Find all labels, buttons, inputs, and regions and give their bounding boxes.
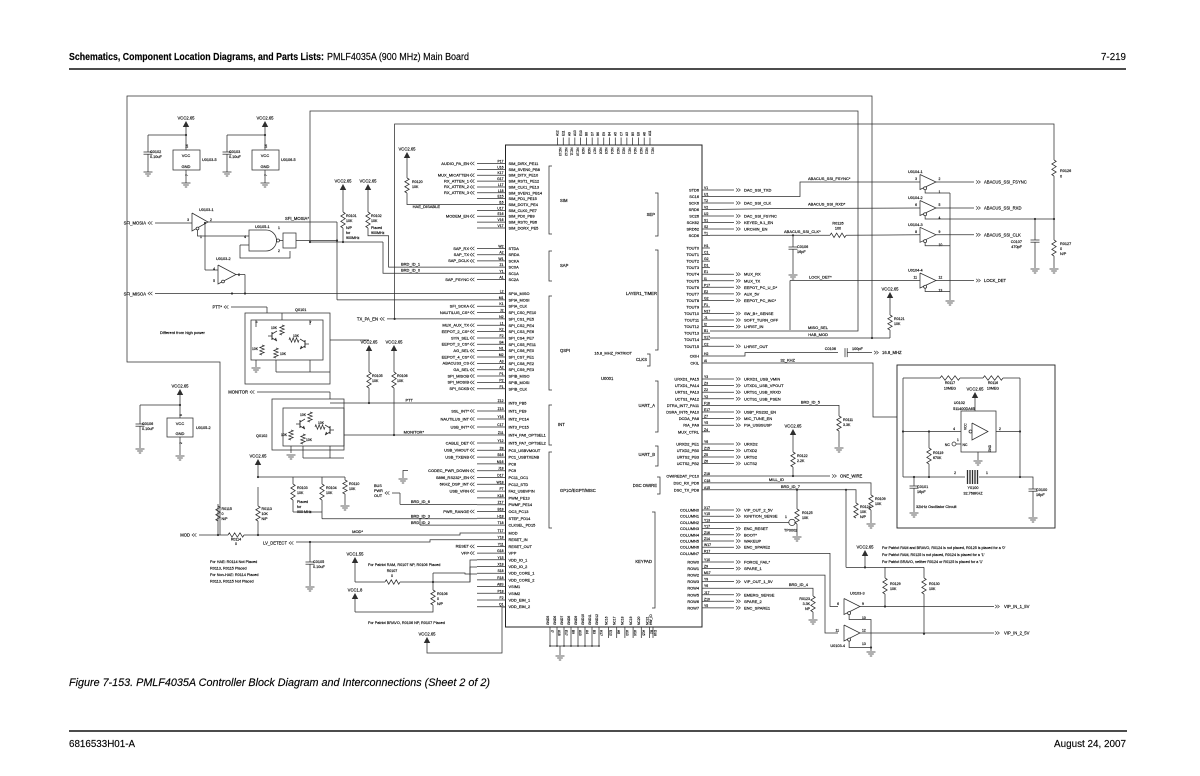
svg-text:Z18: Z18 <box>704 472 710 476</box>
svg-text:3.3K: 3.3K <box>803 602 811 606</box>
svg-text:For Patriot BRAVO, R0106 NP, R: For Patriot BRAVO, R0106 NP, R0107 Place… <box>368 621 445 625</box>
svg-text:A2: A2 <box>499 251 503 255</box>
svg-text:MOD: MOD <box>509 531 518 536</box>
svg-text:RX_ATTEN_3: RX_ATTEN_3 <box>444 190 470 195</box>
svg-text:ROW1: ROW1 <box>687 566 699 571</box>
svg-text:SPIA_MOSI: SPIA_MOSI <box>509 297 530 302</box>
svg-text:C0107: C0107 <box>1011 240 1022 244</box>
svg-text:R0122: R0122 <box>797 454 808 458</box>
svg-text:VDD_EIM_2: VDD_EIM_2 <box>509 604 531 609</box>
svg-text:VCC2.65: VCC2.65 <box>335 179 353 184</box>
svg-text:MUX_MICATTEN: MUX_MICATTEN <box>438 173 469 178</box>
svg-text:6816533H01-A: 6816533H01-A <box>69 738 135 750</box>
svg-text:Z1: Z1 <box>500 263 504 267</box>
svg-text:TOUT12: TOUT12 <box>684 324 699 329</box>
svg-text:VCC2.65: VCC2.65 <box>785 424 803 429</box>
svg-text:H17: H17 <box>599 630 603 636</box>
svg-text:U0105-1: U0105-1 <box>255 225 270 229</box>
svg-text:U17: U17 <box>497 206 503 210</box>
svg-text:BRD_ID_5: BRD_ID_5 <box>801 399 821 404</box>
svg-text:URTS1_PA13: URTS1_PA13 <box>675 390 699 395</box>
svg-text:RESET: RESET <box>456 544 470 549</box>
svg-text:PMLF4035A (900 MHz) Main Board: PMLF4035A (900 MHz) Main Board <box>327 52 469 63</box>
svg-text:D17: D17 <box>497 474 503 478</box>
svg-text:2: 2 <box>278 249 280 253</box>
svg-text:B18: B18 <box>497 508 503 512</box>
svg-text:August 24, 2007: August 24, 2007 <box>1054 738 1126 750</box>
svg-text:N2: N2 <box>499 315 503 319</box>
svg-text:MUX_AUX_TX: MUX_AUX_TX <box>442 323 469 328</box>
svg-text:SPI_MISOB: SPI_MISOB <box>447 373 469 378</box>
svg-text:C0101: C0101 <box>917 485 928 489</box>
svg-text:SPI_CS8_PE2: SPI_CS8_PE2 <box>509 361 535 366</box>
svg-text:8: 8 <box>915 230 917 234</box>
svg-text:W1: W1 <box>498 257 503 261</box>
svg-text:10K: 10K <box>300 413 307 417</box>
svg-text:Y10: Y10 <box>704 558 710 562</box>
svg-text:VSIM2: VSIM2 <box>509 591 521 596</box>
svg-text:USB_VMOUT: USB_VMOUT <box>444 448 469 453</box>
svg-text:RIA_PA9: RIA_PA9 <box>683 423 699 428</box>
svg-text:S896_RS232*_EN: S896_RS232*_EN <box>436 475 469 480</box>
svg-text:OWIREDAT_PC10: OWIREDAT_PC10 <box>666 474 699 479</box>
svg-text:NC12: NC12 <box>564 148 568 157</box>
svg-text:10K: 10K <box>293 334 300 338</box>
svg-text:N/P: N/P <box>262 517 269 521</box>
svg-text:LOCK_DET: LOCK_DET <box>984 278 1007 283</box>
svg-text:NC9: NC9 <box>581 148 585 155</box>
svg-text:DSC OWIRE: DSC OWIRE <box>633 483 657 488</box>
svg-text:Q0101: Q0101 <box>295 308 306 312</box>
svg-text:ABACUS_SSI_RXD: ABACUS_SSI_RXD <box>984 206 1021 211</box>
svg-text:GND5: GND5 <box>546 616 550 625</box>
svg-text:ROW3: ROW3 <box>687 579 699 584</box>
svg-text:SIM_CLK1_PE13: SIM_CLK1_PE13 <box>509 184 540 189</box>
svg-text:P2: P2 <box>499 378 503 382</box>
svg-text:Y3: Y3 <box>704 375 708 379</box>
svg-text:INT3_PC15: INT3_PC15 <box>509 425 529 430</box>
svg-text:M16: M16 <box>497 460 504 464</box>
svg-text:32_KHZ: 32_KHZ <box>780 358 795 363</box>
svg-text:GND11: GND11 <box>588 614 592 625</box>
svg-text:UCTS2: UCTS2 <box>744 461 758 466</box>
svg-text:670K: 670K <box>933 456 942 460</box>
svg-text:UART_A: UART_A <box>639 403 656 408</box>
svg-text:T1: T1 <box>704 232 708 236</box>
svg-text:B6: B6 <box>596 132 600 136</box>
svg-text:SEP: SEP <box>647 212 656 217</box>
svg-text:RX_ATTEN_1: RX_ATTEN_1 <box>444 178 470 183</box>
svg-text:2: 2 <box>954 471 956 475</box>
svg-text:A13: A13 <box>625 630 629 636</box>
svg-text:VCC2.65: VCC2.65 <box>419 632 437 637</box>
svg-text:TOUT3: TOUT3 <box>686 265 699 270</box>
svg-text:VCC2.65: VCC2.65 <box>361 340 379 345</box>
svg-text:P17: P17 <box>704 283 710 287</box>
svg-text:10K: 10K <box>280 352 287 356</box>
svg-text:NC5: NC5 <box>604 148 608 155</box>
svg-text:Z4: Z4 <box>704 428 708 432</box>
svg-text:B4: B4 <box>499 340 503 344</box>
svg-text:SIM_PD1_PE15: SIM_PD1_PE15 <box>509 196 537 201</box>
svg-text:P17: P17 <box>497 160 503 164</box>
svg-text:AI: AI <box>704 359 707 363</box>
svg-text:L2: L2 <box>500 290 504 294</box>
svg-text:ENC_SPARE2: ENC_SPARE2 <box>744 545 771 550</box>
svg-text:ROW2: ROW2 <box>687 573 699 578</box>
svg-text:MUX_RX: MUX_RX <box>744 272 761 277</box>
svg-text:PIA_USBSUSP: PIA_USBSUSP <box>744 423 772 428</box>
svg-text:10K: 10K <box>894 322 901 326</box>
svg-text:INT1_PE9: INT1_PE9 <box>509 409 527 414</box>
svg-text:Z5: Z5 <box>704 453 708 457</box>
svg-text:ABACUS_SSI_CLK*: ABACUS_SSI_CLK* <box>784 229 821 234</box>
svg-text:MODEM_EN: MODEM_EN <box>446 214 469 219</box>
svg-text:ROW7: ROW7 <box>687 605 699 610</box>
svg-text:AUX_5V: AUX_5V <box>744 291 760 296</box>
svg-text:EMERG_SENSE: EMERG_SENSE <box>744 592 775 597</box>
svg-text:10K: 10K <box>860 510 867 514</box>
svg-text:VCC2.65: VCC2.65 <box>386 340 404 345</box>
svg-text:For HAE: R0114 Not Placed: For HAE: R0114 Not Placed <box>210 560 257 564</box>
svg-text:W18: W18 <box>497 480 504 484</box>
svg-text:GND6: GND6 <box>553 616 557 625</box>
svg-text:TOUT13: TOUT13 <box>684 331 699 336</box>
svg-text:TOUT2: TOUT2 <box>686 259 699 264</box>
svg-text:VCC2.65: VCC2.65 <box>857 545 875 550</box>
svg-text:1: 1 <box>785 515 787 519</box>
svg-text:C0106: C0106 <box>797 245 808 249</box>
svg-text:INT4_PA6_OPTSEL1: INT4_PA6_OPTSEL1 <box>509 433 546 438</box>
svg-text:A13: A13 <box>573 130 577 136</box>
svg-text:F2: F2 <box>500 334 504 338</box>
svg-text:NC6: NC6 <box>598 148 602 155</box>
svg-text:SPIA_CLK: SPIA_CLK <box>509 304 528 309</box>
svg-text:URTS2: URTS2 <box>744 455 758 460</box>
svg-text:U0104-1: U0104-1 <box>908 170 923 174</box>
svg-text:A3: A3 <box>625 132 629 136</box>
svg-text:SPI_CS2_PE4: SPI_CS2_PE4 <box>509 323 535 328</box>
svg-text:MONITOR*: MONITOR* <box>404 430 425 435</box>
svg-text:MONITOR: MONITOR <box>228 390 248 395</box>
svg-text:SC2A: SC2A <box>509 277 520 282</box>
svg-text:10K: 10K <box>412 185 419 189</box>
svg-text:M1: M1 <box>499 296 504 300</box>
svg-text:A10: A10 <box>578 630 582 636</box>
svg-text:Q0102: Q0102 <box>256 434 267 438</box>
svg-text:J17: J17 <box>704 591 710 595</box>
svg-text:10K: 10K <box>349 487 356 491</box>
svg-text:GND8: GND8 <box>567 616 571 625</box>
svg-text:R0126: R0126 <box>1060 169 1071 173</box>
svg-text:R0113, R0115 Placed: R0113, R0115 Placed <box>210 567 247 571</box>
svg-text:9: 9 <box>939 230 941 234</box>
svg-text:Z14: Z14 <box>704 537 710 541</box>
svg-text:U0106-5: U0106-5 <box>281 158 296 162</box>
svg-text:Figure 7-153. PMLF4035A Contro: Figure 7-153. PMLF4035A Controller Block… <box>69 677 490 689</box>
svg-text:M17: M17 <box>704 571 711 575</box>
svg-text:12: 12 <box>939 276 943 280</box>
svg-text:14: 14 <box>264 144 268 148</box>
svg-text:F1: F1 <box>704 303 708 307</box>
svg-text:BRD_ID_0: BRD_ID_0 <box>401 268 421 273</box>
svg-text:R0130: R0130 <box>929 582 940 586</box>
svg-text:RX_ATTEN_2: RX_ATTEN_2 <box>444 184 470 189</box>
svg-text:INT: INT <box>558 422 565 427</box>
svg-text:SPI_CS6_PE0: SPI_CS6_PE0 <box>509 348 535 353</box>
svg-text:VCC2.65: VCC2.65 <box>967 387 985 392</box>
svg-text:BRD_ID_1: BRD_ID_1 <box>401 261 421 266</box>
svg-text:U0103-5: U0103-5 <box>202 158 217 162</box>
svg-text:VCC1.8: VCC1.8 <box>348 588 363 593</box>
svg-text:V17: V17 <box>497 224 503 228</box>
svg-text:PWMF_PE14: PWMF_PE14 <box>509 502 533 507</box>
svg-text:2.2K: 2.2K <box>797 459 805 463</box>
svg-text:B9: B9 <box>571 630 575 634</box>
svg-text:U0001: U0001 <box>601 376 614 381</box>
svg-text:PWR: PWR <box>374 489 383 493</box>
svg-text:SYN_SEL: SYN_SEL <box>451 335 470 340</box>
svg-text:Y6: Y6 <box>704 584 708 588</box>
svg-text:32.768KHZ: 32.768KHZ <box>963 492 983 496</box>
svg-text:SPARE_2: SPARE_2 <box>744 599 762 604</box>
svg-text:C2: C2 <box>704 342 708 346</box>
svg-text:NAUTILUS_CS*: NAUTILUS_CS* <box>440 310 470 315</box>
svg-text:16pF: 16pF <box>1036 493 1045 497</box>
svg-text:BRD_ID_6: BRD_ID_6 <box>411 499 431 504</box>
svg-text:C7: C7 <box>619 132 623 136</box>
svg-text:13: 13 <box>939 289 943 293</box>
svg-text:R0107: R0107 <box>387 569 398 573</box>
svg-text:511400DA65: 511400DA65 <box>953 407 975 411</box>
svg-text:SAP: SAP <box>560 263 569 268</box>
svg-text:B3: B3 <box>592 630 596 634</box>
svg-text:EEPOT_3_CS*: EEPOT_3_CS* <box>442 342 470 347</box>
svg-text:B5: B5 <box>631 132 635 136</box>
svg-text:DSC_TX_PD8: DSC_TX_PD8 <box>674 487 699 492</box>
svg-text:Z9: Z9 <box>704 565 708 569</box>
svg-text:SC1A: SC1A <box>509 271 520 276</box>
svg-text:PTT: PTT <box>405 398 413 403</box>
svg-text:GND: GND <box>261 164 270 169</box>
svg-text:ABACUS3_CS: ABACUS3_CS <box>443 361 470 366</box>
svg-text:NC18: NC18 <box>621 616 625 625</box>
svg-text:Y12: Y12 <box>497 439 503 443</box>
svg-text:U16: U16 <box>497 165 503 169</box>
svg-text:U0102: U0102 <box>954 401 965 405</box>
svg-text:GND9: GND9 <box>574 616 578 625</box>
svg-text:CLKSEL_PD15: CLKSEL_PD15 <box>509 523 536 528</box>
svg-text:ABACUS_SSI_FSYNC: ABACUS_SSI_FSYNC <box>984 180 1027 185</box>
svg-text:URTS2_PB3: URTS2_PB3 <box>677 455 699 460</box>
svg-text:For Patriot BRAVO, neither R01: For Patriot BRAVO, neither R0124 or R012… <box>882 560 983 564</box>
svg-text:HAB_MOD: HAB_MOD <box>808 332 828 337</box>
svg-text:SPI_MOSIB: SPI_MOSIB <box>447 380 469 385</box>
svg-text:GND: GND <box>988 444 992 452</box>
svg-text:MUX_CTRL: MUX_CTRL <box>678 429 700 434</box>
svg-text:Placed: Placed <box>297 500 308 504</box>
svg-text:KEYED_9.1_EN: KEYED_9.1_EN <box>744 220 773 225</box>
svg-text:STDA: STDA <box>509 246 520 251</box>
svg-text:13: 13 <box>862 642 866 646</box>
svg-text:SCK6: SCK6 <box>689 201 699 206</box>
svg-text:EEPOT_PC_U_D*: EEPOT_PC_U_D* <box>744 285 778 290</box>
svg-text:4: 4 <box>953 427 955 431</box>
svg-text:R0103: R0103 <box>297 486 308 490</box>
svg-text:0.10uF: 0.10uF <box>150 155 163 159</box>
svg-text:J1: J1 <box>704 316 708 320</box>
svg-text:0.10uF: 0.10uF <box>142 427 155 431</box>
svg-text:CABLE_DET: CABLE_DET <box>446 440 470 445</box>
svg-text:K1: K1 <box>499 302 503 306</box>
svg-text:C0102: C0102 <box>150 150 161 154</box>
svg-text:10K: 10K <box>875 502 882 506</box>
svg-text:I2: I2 <box>704 323 707 327</box>
svg-text:R0102: R0102 <box>371 214 382 218</box>
svg-text:OUT: OUT <box>374 494 383 498</box>
svg-text:C0105: C0105 <box>313 560 324 564</box>
svg-text:F2: F2 <box>500 596 504 600</box>
svg-text:DAC_SSI_CLK: DAC_SSI_CLK <box>744 201 771 206</box>
svg-text:VCC: VCC <box>182 153 191 158</box>
svg-text:RESET_IN: RESET_IN <box>509 537 528 542</box>
svg-text:L17: L17 <box>498 183 504 187</box>
svg-text:14: 14 <box>185 144 189 148</box>
svg-text:PTT*: PTT* <box>212 305 222 310</box>
svg-text:3: 3 <box>915 177 917 181</box>
svg-text:VIP_IN_2_5V: VIP_IN_2_5V <box>1004 631 1030 636</box>
svg-text:SW_B+_SENSE: SW_B+_SENSE <box>744 311 774 316</box>
svg-text:32kHz Oscillator Circuit: 32kHz Oscillator Circuit <box>916 504 957 509</box>
svg-text:BRD_ID_2: BRD_ID_2 <box>411 520 431 525</box>
svg-text:For Patriot RAM, R0125 is not: For Patriot RAM, R0125 is not placed, R0… <box>882 553 985 557</box>
svg-text:EEPOT_PC_INC*: EEPOT_PC_INC* <box>744 298 776 303</box>
svg-text:NC1: NC1 <box>650 148 654 155</box>
svg-text:PC0_USBVMOUT: PC0_USBVMOUT <box>509 448 541 453</box>
svg-text:PC8: PC8 <box>509 461 517 466</box>
svg-text:E15: E15 <box>497 195 503 199</box>
svg-text:3: 3 <box>187 218 189 222</box>
svg-text:U0105-2: U0105-2 <box>196 426 211 430</box>
svg-text:F7: F7 <box>500 487 504 491</box>
svg-text:BRD_ID_7: BRD_ID_7 <box>781 484 801 489</box>
svg-text:PC12_STD: PC12_STD <box>509 482 529 487</box>
svg-text:Y15: Y15 <box>497 556 503 560</box>
svg-text:R0110: R0110 <box>349 482 359 486</box>
svg-text:16pF: 16pF <box>917 490 926 494</box>
svg-text:R18: R18 <box>497 576 503 580</box>
svg-text:QSPI: QSPI <box>560 348 570 353</box>
svg-text:VFP: VFP <box>461 550 469 555</box>
svg-text:1: 1 <box>986 471 988 475</box>
svg-text:VCC2.65: VCC2.65 <box>172 384 190 389</box>
svg-text:7: 7 <box>185 174 189 176</box>
svg-text:3.3K: 3.3K <box>843 423 851 427</box>
svg-text:TOUT11: TOUT11 <box>684 318 699 323</box>
svg-text:Y5: Y5 <box>704 421 708 425</box>
svg-text:J18: J18 <box>498 467 504 471</box>
svg-text:URXD2: URXD2 <box>744 442 758 447</box>
svg-text:E2: E2 <box>704 290 708 294</box>
svg-text:P1: P1 <box>499 372 503 376</box>
svg-text:LOCK_DET*: LOCK_DET* <box>809 275 832 280</box>
svg-text:10K: 10K <box>890 587 897 591</box>
svg-text:I1: I1 <box>704 277 707 281</box>
svg-text:10K: 10K <box>271 326 278 330</box>
svg-text:VIP_OUT_1_5V: VIP_OUT_1_5V <box>744 579 773 584</box>
svg-text:SRD6: SRD6 <box>689 207 699 212</box>
svg-text:DCDA_PA8: DCDA_PA8 <box>679 416 699 421</box>
svg-text:A6: A6 <box>642 132 646 136</box>
svg-text:A5: A5 <box>614 132 618 136</box>
svg-text:V1: V1 <box>704 186 708 190</box>
svg-text:SCK62: SCK62 <box>687 220 699 225</box>
svg-text:6: 6 <box>238 273 240 277</box>
svg-text:UCTS2_PB2: UCTS2_PB2 <box>677 461 699 466</box>
svg-text:UTXD1_PA14: UTXD1_PA14 <box>675 383 700 388</box>
svg-text:GND: GND <box>176 431 185 436</box>
svg-text:A1: A1 <box>499 276 503 280</box>
svg-text:RESET_OUT: RESET_OUT <box>509 544 533 549</box>
svg-text:ROW5: ROW5 <box>687 592 699 597</box>
svg-text:A15: A15 <box>641 630 645 636</box>
svg-text:0: 0 <box>1060 175 1062 179</box>
svg-text:NP: NP <box>805 607 811 611</box>
svg-text:R0124: R0124 <box>860 505 871 509</box>
svg-text:2: 2 <box>210 218 212 222</box>
svg-text:PC1_USBTXENB: PC1_USBTXENB <box>509 455 540 460</box>
svg-text:WAKEUP: WAKEUP <box>744 539 762 544</box>
svg-text:URTS1_USB_XRXD: URTS1_USB_XRXD <box>744 390 781 395</box>
svg-text:Z11: Z11 <box>498 431 504 435</box>
svg-text:2: 2 <box>939 177 941 181</box>
svg-text:DTRA_INT7_PA11: DTRA_INT7_PA11 <box>667 403 699 408</box>
svg-text:VDD_IO_1: VDD_IO_1 <box>509 557 528 562</box>
svg-text:E8: E8 <box>637 132 641 136</box>
svg-text:SIM_DORX_PE5: SIM_DORX_PE5 <box>509 225 539 230</box>
svg-text:10K: 10K <box>252 347 259 351</box>
svg-text:N/P: N/P <box>860 515 867 519</box>
svg-text:C1: C1 <box>704 251 708 255</box>
svg-text:VPP: VPP <box>509 551 517 556</box>
svg-text:Y15: Y15 <box>704 512 710 516</box>
svg-text:MOD*: MOD* <box>352 529 363 534</box>
svg-text:10K: 10K <box>281 433 288 437</box>
svg-text:SPIB_MISO: SPIB_MISO <box>509 374 530 379</box>
svg-text:N/P: N/P <box>346 226 353 230</box>
svg-text:11: 11 <box>835 629 839 633</box>
svg-text:C0106: C0106 <box>142 422 153 426</box>
svg-text:KEYPAD: KEYPAD <box>635 559 652 564</box>
svg-text:COLUMN1: COLUMN1 <box>680 514 699 519</box>
svg-text:E17: E17 <box>564 630 568 636</box>
svg-text:TP0002: TP0002 <box>784 529 797 533</box>
svg-text:B16: B16 <box>497 453 503 457</box>
svg-text:S17: S17 <box>704 336 710 340</box>
svg-text:R0113, R0115 Not Placed: R0113, R0115 Not Placed <box>210 580 254 584</box>
svg-text:Z8: Z8 <box>500 446 504 450</box>
svg-text:Y11: Y11 <box>498 542 504 546</box>
svg-text:0: 0 <box>437 597 439 601</box>
svg-text:COLUMN7: COLUMN7 <box>680 551 699 556</box>
svg-text:I16: I16 <box>499 201 504 205</box>
svg-text:VCC: VCC <box>964 423 968 430</box>
svg-text:Placed: Placed <box>371 226 382 230</box>
svg-text:B4: B4 <box>608 132 612 136</box>
svg-text:HW_ID: HW_ID <box>649 614 653 625</box>
svg-text:GND12: GND12 <box>595 614 599 625</box>
svg-text:VDD_IO_2: VDD_IO_2 <box>509 564 528 569</box>
